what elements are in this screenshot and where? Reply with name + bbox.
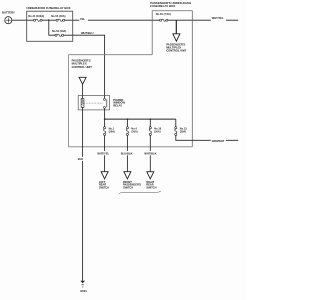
wire column 1 xyxy=(104,119,106,174)
svg-text:(20A): (20A) xyxy=(131,130,137,133)
svg-text:UNDERHOOD FUSE/RELAY BOX: UNDERHOOD FUSE/RELAY BOX xyxy=(26,6,70,10)
svg-text:No.10 (7.5A): No.10 (7.5A) xyxy=(156,12,171,16)
fuse No.16 (20A) xyxy=(149,127,151,136)
svg-text:SWITCH: SWITCH xyxy=(99,185,109,189)
wire column 3 xyxy=(149,119,151,174)
label BLU/BLK column 2 xyxy=(120,151,135,155)
svg-text:SWITCH: SWITCH xyxy=(146,185,156,189)
svg-text:(20A): (20A) xyxy=(154,130,160,133)
connector arrow to passenger's multiplex control unit (right) xyxy=(173,34,180,41)
wire relay contact to fuse bus xyxy=(104,108,106,119)
wire fuse bus xyxy=(105,118,176,120)
svg-text:G501: G501 xyxy=(80,289,87,293)
wire column 2 xyxy=(126,119,128,174)
wire main battery feed xyxy=(12,19,238,21)
fuse No.10 (7.5A) xyxy=(160,19,168,21)
passenger's under-dash fuse/relay box (L-shaped outline) xyxy=(69,55,193,147)
svg-text:SWITCH: SWITCH xyxy=(123,185,133,189)
label GRN/WHT xyxy=(211,138,226,143)
label WHT/BLK column 3 xyxy=(144,151,160,155)
label BLK xyxy=(77,157,85,161)
fuse No.13 (20A) xyxy=(175,127,177,136)
connector arrow right rear switch xyxy=(147,172,154,179)
wire BLK ground run xyxy=(82,107,84,280)
white gaps for fuse symbols and inline labels on main line xyxy=(33,16,226,38)
fuse No.41 (100A) xyxy=(33,19,42,21)
svg-text:CONTROL UNIT: CONTROL UNIT xyxy=(72,65,93,69)
svg-text:No.52 (40A): No.52 (40A) xyxy=(52,29,66,33)
relay coil xyxy=(81,99,84,108)
svg-text:GRN/WHT: GRN/WHT xyxy=(212,139,225,143)
fuse No.54 (40A) xyxy=(56,19,65,21)
svg-text:WHT/BLK: WHT/BLK xyxy=(144,152,156,156)
wire drop to multiplex control unit arrow xyxy=(175,20,177,34)
svg-text:FUSE/RELAY BOX: FUSE/RELAY BOX xyxy=(150,4,175,8)
wire triangle to relay coil xyxy=(82,84,84,98)
node bus junctions xyxy=(127,118,128,119)
svg-text:No.54 (40A): No.54 (40A) xyxy=(51,14,65,18)
svg-text:WHT/YEL: WHT/YEL xyxy=(97,152,109,156)
battery xyxy=(5,17,12,24)
svg-text:BLK: BLK xyxy=(78,157,84,161)
svg-text:WHT/BLU: WHT/BLU xyxy=(81,31,93,35)
svg-text:BATTERY: BATTERY xyxy=(2,11,15,15)
connector arrow from multiplex control unit to relay coil xyxy=(79,77,86,84)
relay contact arm xyxy=(106,99,108,107)
underhood fuse/relay box xyxy=(27,11,73,41)
fuse No.4 (20A) xyxy=(126,127,128,136)
ground G501 xyxy=(80,281,85,284)
svg-text:RELAY: RELAY xyxy=(113,104,122,108)
svg-text:WHT/YEL: WHT/YEL xyxy=(212,16,224,20)
power window relay box xyxy=(78,96,109,110)
node junction fuse row xyxy=(48,20,49,21)
svg-text:BLU/BLK: BLU/BLK xyxy=(121,152,133,156)
label WHT/YEL column 1 xyxy=(97,151,113,155)
wire column 4 to GRN/WHT xyxy=(176,119,238,140)
svg-text:(20A): (20A) xyxy=(109,130,115,133)
svg-text:No.41 (100A): No.41 (100A) xyxy=(28,14,44,18)
svg-text:(20A): (20A) xyxy=(180,130,186,133)
bracket under switch labels xyxy=(119,191,161,194)
relay dashed link coil to contact xyxy=(84,102,103,104)
svg-text:YEL: YEL xyxy=(80,17,86,21)
wire second row WHT/BLU xyxy=(49,20,105,98)
svg-text:CONTROL UNIT: CONTROL UNIT xyxy=(166,48,187,52)
connector arrow left rear switch xyxy=(101,172,108,179)
fuse No.52 (40A) lower row xyxy=(55,34,64,36)
fuse No.1 (20A) xyxy=(103,127,105,136)
relay contact terminals xyxy=(104,98,106,100)
connector arrow front passenger's switch xyxy=(124,172,131,179)
